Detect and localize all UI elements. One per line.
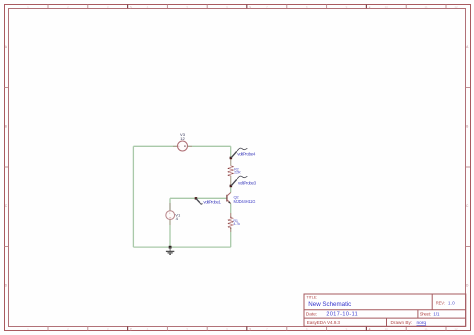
resistor R1 <box>228 213 233 232</box>
voltage probe voltProbe1 <box>196 198 202 204</box>
wire right segment: R2 to Q2 collector <box>230 176 232 193</box>
drawn by value norq <box>417 320 427 326</box>
label voltProbe1 <box>203 200 221 205</box>
rev value 1.0 <box>448 300 455 305</box>
junction node voltProbe1 <box>195 197 198 200</box>
label Date: <box>306 311 317 317</box>
wire right segment: top corner to R2 <box>230 146 232 165</box>
svg-text:REV:: REV: <box>436 300 445 305</box>
sheet value 1/1 <box>433 311 440 316</box>
left margin row letters <box>5 45 8 287</box>
svg-text:Drawn By:: Drawn By: <box>391 320 413 325</box>
label voltProbe3 <box>238 180 257 185</box>
svg-text:22R: 22R <box>234 171 241 175</box>
label V3 value 12 <box>180 136 185 141</box>
right margin row ticks <box>466 88 470 247</box>
label R1 value 4.7k <box>233 222 240 226</box>
wire right segment: Q2 emitter to R1 <box>230 204 232 218</box>
junction node voltProbe3 <box>230 185 233 188</box>
svg-text:3: 3 <box>249 327 251 331</box>
transistor Q2 <box>227 193 231 204</box>
svg-text:MJD44H11G: MJD44H11G <box>234 199 256 204</box>
svg-text:D: D <box>5 283 8 287</box>
title block outline <box>304 294 466 326</box>
label V1 name <box>175 212 181 217</box>
label R1 name <box>233 219 238 223</box>
svg-text:2017-10-11: 2017-10-11 <box>326 311 358 317</box>
svg-text:11: 11 <box>425 5 428 9</box>
ground symbol <box>166 247 174 254</box>
label V1 value 4 <box>176 216 179 221</box>
label Drawn By: <box>391 320 413 325</box>
wire left segment <box>132 146 134 247</box>
junction node voltProbe4 <box>230 157 233 160</box>
svg-text:Sheet:: Sheet: <box>420 311 431 316</box>
wire top segment <box>133 145 230 147</box>
voltage probe voltProbe4 <box>231 148 247 158</box>
wire V1 branch vertical <box>169 198 171 247</box>
svg-text:C: C <box>466 204 469 208</box>
top margin column numbers <box>27 5 458 9</box>
svg-text:voltProbe1: voltProbe1 <box>203 200 221 205</box>
top margin column ticks <box>48 5 446 9</box>
svg-text:12: 12 <box>454 327 458 331</box>
title block REV cell divider <box>431 294 433 310</box>
junction node ground <box>169 246 172 249</box>
svg-text:1/1: 1/1 <box>433 311 440 316</box>
svg-text:voltProbe3: voltProbe3 <box>238 180 257 185</box>
right margin row letters <box>466 45 469 287</box>
svg-text:D: D <box>466 283 469 287</box>
svg-text:10: 10 <box>385 5 389 9</box>
svg-text:4: 4 <box>369 327 371 331</box>
top margin major column digits <box>130 6 371 10</box>
voltage probe voltProbe3 <box>231 176 247 186</box>
title block row divider 2 <box>304 317 466 319</box>
svg-text:A: A <box>5 45 8 49</box>
svg-text:4.7k: 4.7k <box>233 222 240 226</box>
date value 2017-10-11 <box>326 311 358 317</box>
svg-text:3: 3 <box>249 6 251 10</box>
voltage source V3 <box>173 141 192 151</box>
svg-text:C: C <box>5 204 8 208</box>
label REV: <box>436 300 445 305</box>
wire bottom segment <box>133 246 230 248</box>
svg-text:10: 10 <box>385 327 389 331</box>
svg-text:12: 12 <box>180 136 185 141</box>
label R2 name <box>234 167 239 171</box>
svg-text:2: 2 <box>130 6 132 10</box>
svg-text:New Schematic: New Schematic <box>308 301 351 308</box>
bottom margin column numbers <box>27 327 458 331</box>
voltage source V1 <box>166 203 175 225</box>
svg-text:TITLE:: TITLE: <box>306 295 317 299</box>
svg-text:12: 12 <box>454 5 458 9</box>
left margin row ticks <box>5 88 9 247</box>
label Sheet: <box>420 311 431 316</box>
svg-text:voltProbe4: voltProbe4 <box>237 152 256 157</box>
wire base branch horizontal <box>170 197 227 199</box>
resistor R2 <box>228 159 233 185</box>
label EasyEDA V4.9.3 <box>307 320 341 325</box>
bottom margin major column digits <box>130 327 371 331</box>
svg-text:2: 2 <box>130 327 132 331</box>
label voltProbe4 <box>237 152 256 157</box>
svg-text:Date:: Date: <box>306 311 317 317</box>
label Q2 name <box>234 195 240 200</box>
svg-text:B: B <box>466 124 469 128</box>
wire right segment: R1 to bottom corner <box>230 228 232 247</box>
title block DrawnBy cell divider <box>386 318 388 326</box>
svg-text:1.0: 1.0 <box>448 300 455 305</box>
svg-text:B: B <box>5 124 8 128</box>
svg-text:EasyEDA V4.9.3: EasyEDA V4.9.3 <box>307 320 341 325</box>
svg-text:A: A <box>466 45 469 49</box>
svg-text:4: 4 <box>369 6 371 10</box>
bottom margin column ticks <box>48 326 446 330</box>
svg-text:11: 11 <box>425 327 428 331</box>
title text New Schematic <box>308 301 351 308</box>
svg-text:norq: norq <box>417 320 427 326</box>
title block Sheet cell divider <box>417 310 419 318</box>
svg-text:+: + <box>169 211 171 215</box>
label TITLE: <box>306 295 317 299</box>
title block row divider 1 <box>304 309 466 311</box>
label R2 value 22R <box>234 171 241 175</box>
label Q2 value MJD44H11G <box>234 199 256 204</box>
label V3 name <box>180 132 186 137</box>
